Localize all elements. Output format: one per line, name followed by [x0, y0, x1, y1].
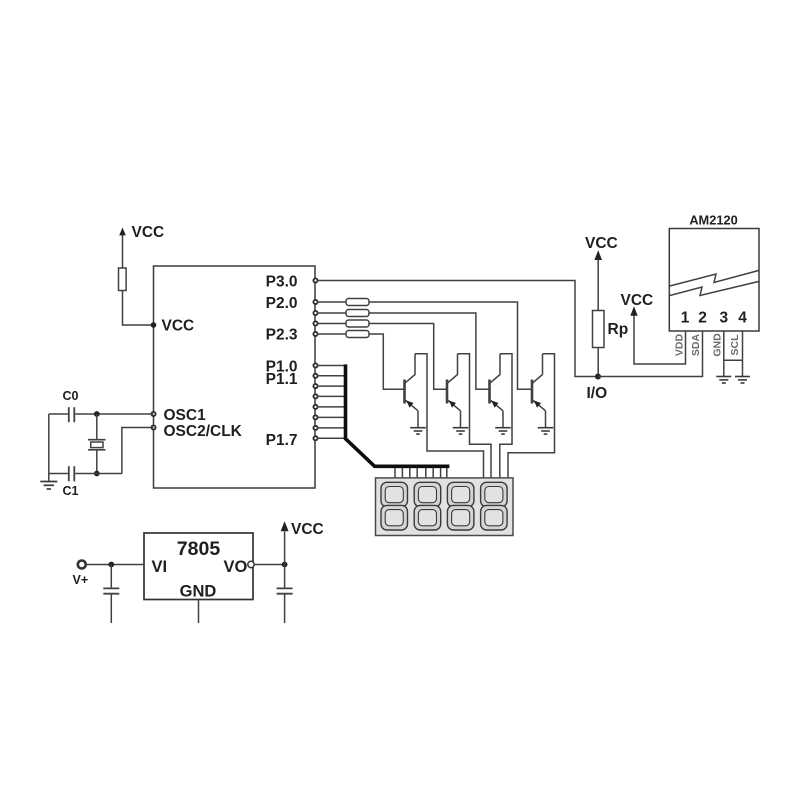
- wire Q4 collector to display: [508, 354, 555, 479]
- wire P2.2 to R4: [317, 323, 346, 325]
- capacitor C1: [69, 466, 75, 481]
- pin dot OSC1: [151, 412, 155, 416]
- svg-text:VCC: VCC: [585, 235, 618, 252]
- sensor break symbol upper line: [670, 271, 759, 287]
- sensor U3 AM2120 box: [669, 229, 759, 332]
- wire P3.0 to I/O node: [317, 281, 596, 377]
- wire 7805 GND pin down: [198, 600, 200, 623]
- wire Q3 collector to display: [500, 354, 512, 479]
- wire R1 to VCC pin: [123, 291, 154, 326]
- wire C1 to crystal bottom: [75, 473, 122, 475]
- svg-text:P1.7: P1.7: [266, 432, 298, 449]
- svg-text:P2.3: P2.3: [266, 326, 298, 343]
- resistor R4: [346, 320, 369, 327]
- wire R2 to Q4 base: [369, 302, 532, 389]
- svg-text:I/O: I/O: [587, 385, 608, 402]
- digit 3 (8): [447, 482, 474, 530]
- svg-text:C1: C1: [63, 484, 79, 498]
- power symbol VCC (AM2120 VDD): [630, 306, 637, 315]
- node output junction: [282, 562, 288, 568]
- sensor break symbol lower line: [670, 282, 759, 296]
- digit 4 (8): [481, 482, 508, 530]
- bus P1 thick line: [346, 364, 450, 466]
- resistor Rp: [593, 311, 605, 348]
- svg-text:P2.0: P2.0: [266, 295, 298, 312]
- resistor R3: [346, 310, 369, 317]
- svg-text:SCL: SCL: [729, 334, 741, 356]
- node input junction: [108, 562, 114, 568]
- svg-text:V+: V+: [73, 573, 89, 587]
- svg-text:AM2120: AM2120: [689, 213, 737, 228]
- svg-text:VI: VI: [152, 558, 168, 576]
- svg-text:OSC1: OSC1: [164, 407, 207, 424]
- regulator U2 7805 box: [144, 533, 253, 600]
- svg-text:OSC2/CLK: OSC2/CLK: [164, 423, 243, 440]
- svg-text:GND: GND: [712, 333, 724, 357]
- capacitor C2 (input): [103, 565, 119, 624]
- ground (AM2120 pin3): [716, 377, 731, 384]
- node VCC pin junction dot: [151, 322, 157, 328]
- resistor R1 (VCC to MCU VCC pin): [119, 268, 127, 291]
- svg-text:VCC: VCC: [132, 224, 165, 241]
- resistor R2: [346, 299, 369, 306]
- wire R5 to Q1 base: [369, 334, 405, 389]
- wire left cap leg down: [48, 414, 50, 481]
- resistor R5: [346, 331, 369, 338]
- wire VO to VCC node: [254, 564, 284, 566]
- svg-text:Rp: Rp: [608, 321, 629, 338]
- IC U1 microcontroller box: [154, 266, 316, 488]
- pin dot OSC2: [151, 425, 155, 429]
- svg-text:P3.0: P3.0: [266, 273, 298, 290]
- svg-text:7805: 7805: [177, 538, 221, 560]
- wire AM2120 pin3 stub: [723, 331, 725, 376]
- node crystal top junction: [94, 411, 100, 417]
- power symbol VCC (top left) arrow: [119, 228, 126, 269]
- svg-text:4: 4: [738, 310, 747, 327]
- wire I/O to AM2120 pin2: [598, 331, 703, 377]
- wire bus stubs to display: [395, 468, 447, 479]
- wire R3 to Q3 base: [369, 313, 490, 389]
- display DS1 4-digit 7-segment: [376, 478, 514, 536]
- wire pin3-pin4 link: [724, 359, 743, 361]
- power symbol VCC (above Rp): [594, 250, 602, 310]
- digit 1 (8): [381, 482, 408, 530]
- svg-text:VCC: VCC: [291, 521, 324, 538]
- wires P1.0-P1.7 pins to bus: [317, 366, 345, 439]
- ground (Q2): [453, 428, 469, 434]
- svg-text:C0: C0: [63, 389, 79, 403]
- wire R4 to Q2 base: [369, 324, 447, 390]
- wire OSC2 net bottom left: [49, 473, 68, 475]
- svg-text:VCC: VCC: [162, 318, 195, 335]
- svg-text:SDA: SDA: [690, 333, 702, 356]
- svg-text:VDD: VDD: [674, 333, 686, 356]
- wire V+ to VI: [86, 564, 144, 566]
- svg-text:1: 1: [681, 310, 690, 327]
- transistor Q1: [405, 354, 419, 427]
- pin dots right edge: [313, 278, 317, 440]
- ground (crystal): [40, 482, 57, 490]
- wire Q2 collector to display: [458, 354, 492, 479]
- wire OSC1 net (left): [49, 413, 68, 415]
- svg-text:3: 3: [719, 310, 728, 327]
- wire Rp to I/O node: [597, 348, 599, 377]
- svg-text:2: 2: [698, 310, 707, 327]
- ground (AM2120 pin4): [735, 377, 750, 384]
- transistor Q3: [490, 354, 504, 427]
- wire P2.0 to R2: [317, 301, 346, 303]
- wire output up to VCC: [284, 532, 286, 565]
- ground (Q4): [538, 428, 554, 434]
- capacitor C0: [69, 407, 75, 422]
- wire Q1 collector to display: [415, 354, 484, 479]
- transistor Q2: [447, 354, 461, 427]
- pin circle VO: [248, 561, 254, 567]
- ground (Q3): [495, 428, 511, 434]
- transistor Q4: [532, 354, 546, 427]
- crystal Y1: [88, 414, 106, 474]
- svg-text:VCC: VCC: [621, 292, 654, 309]
- svg-text:P1.1: P1.1: [266, 371, 298, 388]
- node I/O junction: [595, 374, 601, 380]
- wire AM2120 pin1 to VCC: [634, 315, 686, 364]
- wire C0 to OSC1: [75, 413, 153, 415]
- power symbol VCC (7805 output): [281, 521, 289, 531]
- digit 2 (8): [414, 482, 441, 530]
- svg-text:GND: GND: [180, 583, 217, 601]
- svg-text:VO: VO: [224, 558, 248, 576]
- node crystal bottom junction: [94, 471, 100, 477]
- wire P2.1 to R3: [317, 312, 346, 314]
- wire crystal bottom to OSC2: [122, 428, 154, 474]
- terminal V+: [78, 561, 86, 569]
- ground (Q1): [410, 428, 426, 434]
- wire AM2120 pin4 stub: [742, 331, 744, 376]
- wire P2.3 to R5: [317, 333, 346, 335]
- capacitor C3 (output): [277, 565, 293, 624]
